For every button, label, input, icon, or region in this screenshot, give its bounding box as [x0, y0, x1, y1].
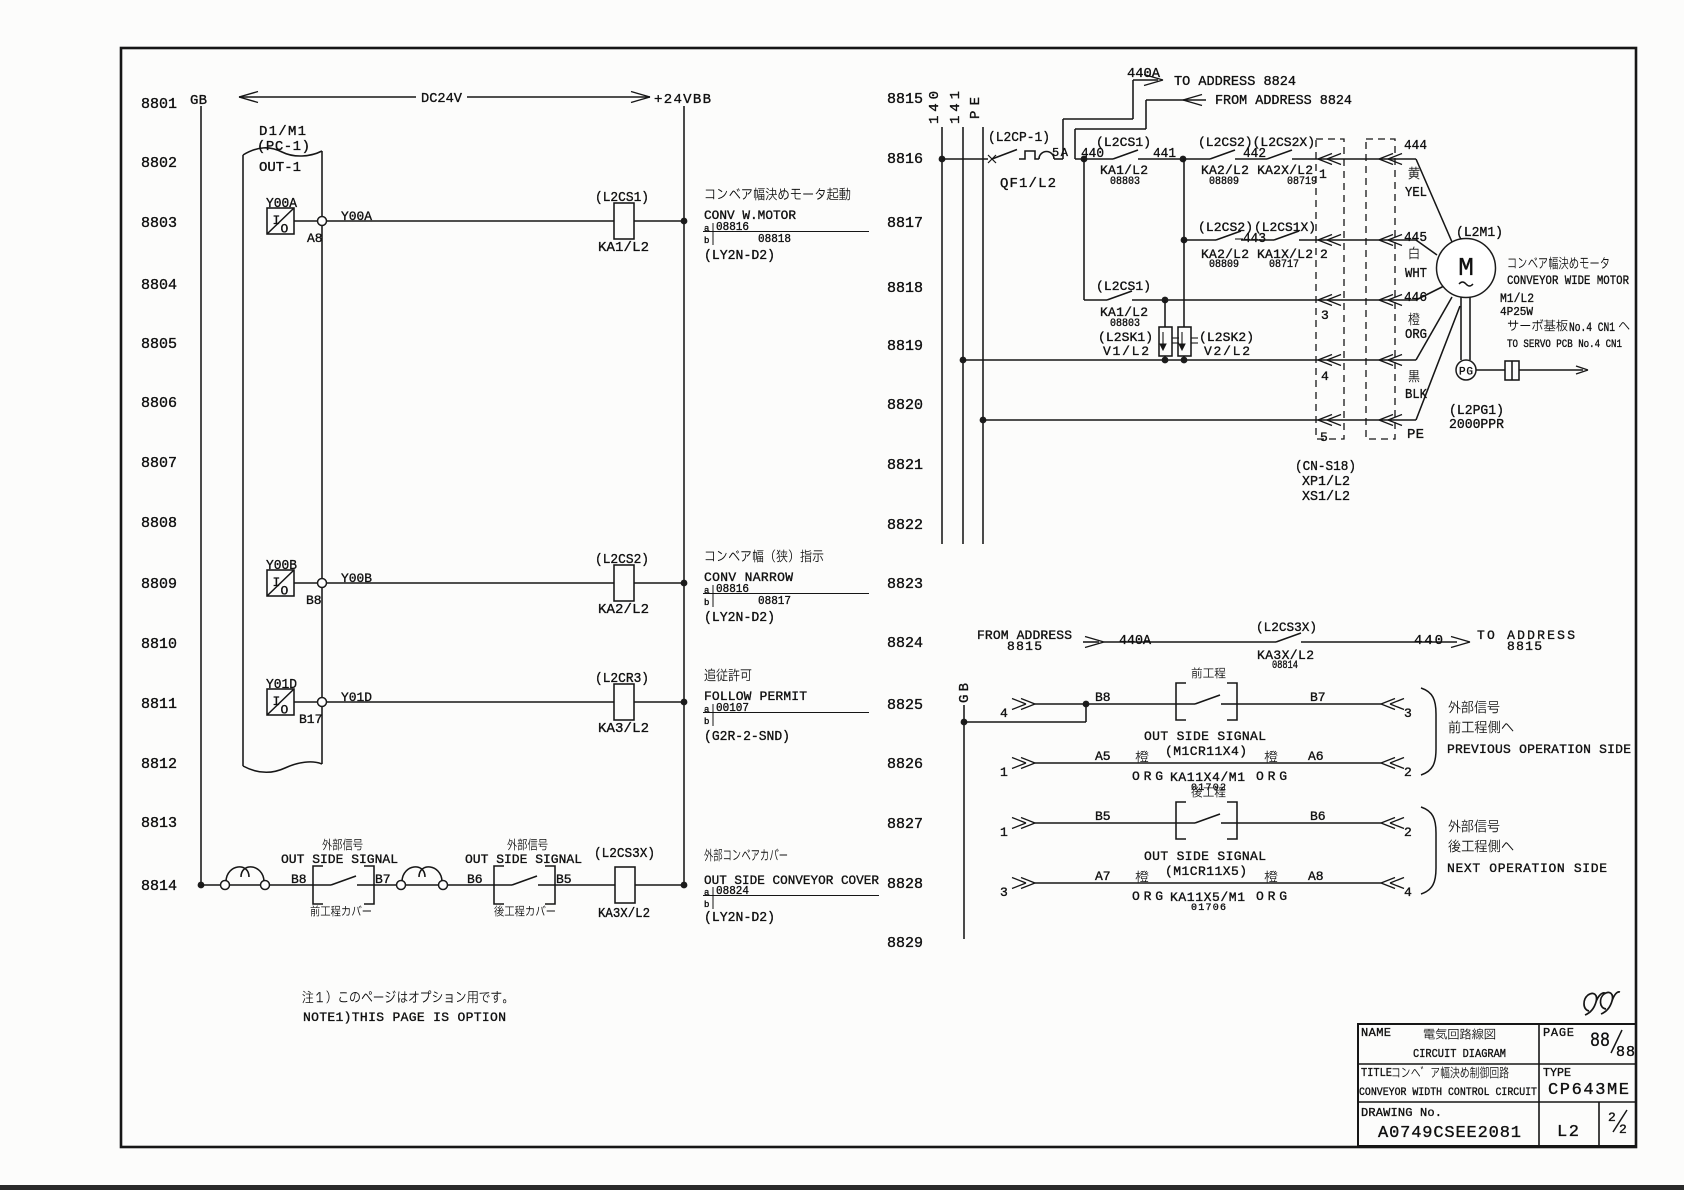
svg-text:a: a [704, 888, 710, 898]
rail PE top [968, 97, 984, 544]
cross-reference CONV W.MOTOR (LY2N-D2) [703, 188, 869, 264]
svg-text:D1/M1: D1/M1 [259, 124, 306, 140]
svg-text:8826: 8826 [887, 756, 923, 773]
cover switch B6-B5 (rear process cover) [465, 839, 582, 917]
svg-text:FROM ADDRESS 8824: FROM ADDRESS 8824 [1215, 93, 1352, 109]
note next operation side [1447, 820, 1607, 877]
svg-text:8816: 8816 [887, 151, 923, 168]
svg-text:Y00A: Y00A [341, 209, 372, 224]
circuit breaker QF1/L2 (L2CP-1) 5A [988, 130, 1069, 192]
svg-text:A0749CSEE2081: A0749CSEE2081 [1378, 1124, 1521, 1143]
wire node 441 drop [1183, 159, 1185, 240]
wire node 440 drop [1084, 159, 1107, 300]
svg-text:DRAWING No.: DRAWING No. [1361, 1106, 1442, 1120]
svg-text:XS1/L2: XS1/L2 [1302, 489, 1350, 505]
svg-text:OUT SIDE SIGNAL: OUT SIDE SIGNAL [281, 852, 398, 867]
svg-text:440: 440 [1414, 633, 1443, 649]
svg-text:(PC-1): (PC-1) [257, 139, 310, 155]
left rail GB [190, 93, 207, 885]
svg-text:O: O [281, 222, 289, 237]
contact KA2/L2 row 8817 (L2CS2) [1184, 220, 1253, 271]
svg-text:8828: 8828 [887, 876, 923, 893]
svg-text:(L2CS3X): (L2CS3X) [594, 846, 655, 862]
svg-text:444: 444 [1404, 138, 1427, 154]
wire 440 to address 8815 [1301, 628, 1575, 654]
svg-text:OUT SIDE SIGNAL: OUT SIDE SIGNAL [1144, 849, 1266, 864]
svg-text:2000PPR: 2000PPR [1449, 417, 1505, 433]
svg-text:(L2CS1): (L2CS1) [1096, 279, 1151, 294]
svg-text:4: 4 [1404, 885, 1412, 900]
junction rail 140 row 8816 [939, 156, 946, 163]
svg-text:B8: B8 [1095, 690, 1111, 705]
wire Y00A row 8803 [327, 209, 615, 224]
label 443 [1235, 231, 1266, 247]
svg-text:8825: 8825 [887, 697, 923, 714]
svg-text:3: 3 [1000, 885, 1008, 900]
svg-text:NEXT OPERATION SIDE: NEXT OPERATION SIDE [1447, 861, 1607, 876]
svg-text:b: b [704, 598, 709, 608]
svg-text:a: a [704, 224, 710, 234]
svg-text:2: 2 [1619, 1122, 1627, 1137]
relay coil KA3/L2 (L2CR3) [595, 671, 649, 737]
wire PE to motor [1407, 306, 1460, 443]
svg-text:8818: 8818 [887, 280, 923, 297]
svg-text:8822: 8822 [887, 517, 923, 534]
process switch B5-B6 (rear process) [1176, 786, 1237, 839]
svg-text:M1/L2: M1/L2 [1500, 291, 1534, 306]
svg-text:KA3/L2: KA3/L2 [598, 721, 649, 737]
wire coil KA3 to +24VBB rail [634, 701, 684, 703]
relay coil KA2/L2 (L2CS2) [595, 552, 649, 618]
wire GB to connector 1 [201, 884, 221, 886]
junction GB row 8814 [198, 882, 205, 889]
motor M1/L2 (L2M1) conveyor wide motor [1437, 225, 1630, 351]
svg-text:1: 1 [1319, 167, 1327, 182]
junction +24VBB row 8814 [681, 882, 688, 889]
svg-text:ORG: ORG [1256, 769, 1287, 784]
note previous operation side [1447, 701, 1631, 758]
brace previous operation side [1421, 688, 1436, 775]
connector XP1/L2 dashed box [1316, 139, 1344, 439]
svg-text:8803: 8803 [141, 215, 177, 232]
wire node 440 row 8816 [1075, 146, 1113, 162]
svg-text:TO ADDRESS 8824: TO ADDRESS 8824 [1174, 74, 1296, 90]
svg-text:08809: 08809 [1209, 259, 1239, 271]
svg-text:(L2SK1): (L2SK1) [1098, 330, 1153, 345]
wire A7-A8 relay KA11X5/M1 (M1CR11X5) [1000, 849, 1412, 914]
junction +24VBB row 8803 [681, 218, 688, 225]
wire Y01D row 8811 [327, 690, 615, 705]
connector pin 5 chevrons [1318, 415, 1402, 446]
svg-text:KA2/L2: KA2/L2 [598, 602, 649, 618]
surge killer V1/L2 (L2SK1) [1098, 300, 1179, 360]
svg-text:B7: B7 [1310, 690, 1326, 705]
wire 440A to address 8824 [1063, 66, 1296, 159]
svg-text:8815: 8815 [1007, 639, 1042, 654]
svg-text:(L2CS2)(L2CS2X): (L2CS2)(L2CS2X) [1198, 135, 1315, 150]
connector XS1/L2 dashed box [1366, 139, 1395, 439]
rail 141 [948, 91, 964, 544]
wire A5-A6 relay KA11X4/M1 (M1CR11X4) [1000, 729, 1412, 794]
contact KA2/L2 row 8816 (L2CS2) [1183, 150, 1235, 159]
svg-text:b: b [704, 900, 709, 910]
contact KA2X/L2 row 8816 (L2CS2X) [1198, 135, 1317, 188]
svg-text:08719: 08719 [1287, 176, 1317, 188]
svg-text:2: 2 [1320, 247, 1328, 262]
svg-text:(LY2N-D2): (LY2N-D2) [704, 248, 775, 264]
svg-text:A5: A5 [1095, 749, 1111, 764]
svg-text:141: 141 [948, 91, 964, 124]
svg-text:(L2CR3): (L2CR3) [595, 671, 649, 687]
junction row 8825 [1083, 701, 1090, 708]
svg-text:Y00A: Y00A [266, 196, 298, 212]
svg-text:140: 140 [927, 91, 943, 124]
svg-text:NOTE1)THIS PAGE IS OPTION: NOTE1)THIS PAGE IS OPTION [303, 1010, 506, 1025]
svg-text:B8: B8 [306, 593, 322, 608]
encoder PG (L2PG1) 2000PPR [1449, 298, 1505, 434]
svg-text:8812: 8812 [141, 756, 177, 773]
wire row 8818 into connector [1132, 299, 1416, 301]
row address labels 8801-8814 [141, 96, 177, 895]
svg-text:(L2CS2): (L2CS2) [595, 552, 649, 568]
bus label DC24V with arrows [239, 91, 650, 107]
junction +24VBB row 8811 [681, 699, 688, 706]
node 441 [1180, 156, 1187, 163]
svg-text:08814: 08814 [1272, 660, 1298, 672]
note CN-S18 XP1/L2 XS1/L2 [1295, 459, 1356, 505]
PLC module D1/M1 (PC-1) OUT-1 [243, 124, 322, 772]
wire row 8817 into connector [1299, 239, 1416, 241]
wire 441 [1138, 146, 1183, 162]
wire connector2 to switch B6 [406, 872, 513, 887]
svg-text:B8: B8 [291, 872, 307, 887]
svg-text:CIRCUIT DIAGRAM: CIRCUIT DIAGRAM [1413, 1047, 1506, 1061]
label 442 [1243, 146, 1266, 162]
junction row 8818 surge [1162, 297, 1169, 304]
svg-text:8806: 8806 [141, 395, 177, 412]
svg-text:08809: 08809 [1209, 176, 1239, 188]
PLC output Y00A pin A8 [266, 196, 327, 246]
svg-text:446: 446 [1404, 290, 1427, 306]
svg-text:4: 4 [1000, 706, 1008, 721]
contact KA1X/L2 row 8817 (L2CS1X) [1241, 220, 1316, 271]
svg-text:4P25W: 4P25W [1500, 305, 1534, 319]
wire BLK to motor [1405, 297, 1452, 403]
svg-text:WHT: WHT [1405, 266, 1427, 282]
svg-text:8811: 8811 [141, 696, 177, 713]
cross-reference OUT SIDE CONVEYOR COVER [703, 849, 879, 926]
svg-text:(L2M1): (L2M1) [1456, 225, 1503, 241]
svg-text:Y01D: Y01D [341, 690, 372, 705]
relay coil KA3X/L2 (L2CS3X) [594, 846, 655, 922]
svg-text:A8: A8 [1308, 869, 1324, 884]
svg-text:V2/L2: V2/L2 [1204, 344, 1250, 359]
svg-text:YEL: YEL [1405, 185, 1427, 201]
svg-text:O: O [281, 584, 289, 599]
svg-text:B6: B6 [1310, 809, 1326, 824]
svg-text:8817: 8817 [887, 215, 923, 232]
surge killer V2/L2 (L2SK2) [1178, 240, 1254, 360]
svg-text:KA3X/L2: KA3X/L2 [598, 906, 650, 922]
svg-text:445: 445 [1404, 230, 1427, 246]
svg-text:440A: 440A [1119, 633, 1152, 649]
wire coil KA2 to +24VBB rail [634, 582, 684, 584]
svg-text:PG: PG [1459, 367, 1473, 379]
svg-text:441: 441 [1153, 146, 1176, 162]
svg-text:8815: 8815 [887, 91, 923, 108]
svg-text:Y00B: Y00B [341, 571, 372, 586]
wire row 8820 PE [983, 419, 1416, 421]
junction rail 141 row 8819 [960, 357, 967, 364]
wire exit 2 row 8827 [1237, 809, 1412, 840]
svg-text:1: 1 [1000, 765, 1008, 780]
svg-text:08803: 08803 [1110, 318, 1140, 330]
brace next operation side [1421, 807, 1436, 894]
svg-text:8810: 8810 [141, 636, 177, 653]
svg-text:L2: L2 [1557, 1123, 1579, 1142]
svg-text:B6: B6 [467, 872, 483, 887]
wire row 8816 into connector [1292, 158, 1416, 160]
wire PG to servo connector [1476, 369, 1505, 371]
svg-text:A6: A6 [1308, 749, 1324, 764]
svg-text:2: 2 [1404, 825, 1412, 840]
svg-text:I: I [273, 575, 281, 590]
svg-text:8814: 8814 [141, 878, 177, 895]
svg-text:8813: 8813 [141, 815, 177, 832]
svg-text:(LY2N-D2): (LY2N-D2) [704, 910, 775, 926]
wire coil KA1 to +24VBB rail [634, 220, 684, 222]
junction +24VBB row 8809 [681, 580, 688, 587]
row address labels 8815-8829 [887, 91, 923, 952]
svg-text:8823: 8823 [887, 576, 923, 593]
svg-text:88: 88 [1616, 1044, 1635, 1061]
junction V2 row 8819 [1181, 357, 1188, 364]
junction rail PE row 8820 [980, 417, 987, 424]
wire exit 3 row 8825 [1237, 690, 1412, 721]
wire switch B5 to coil KA3X [576, 884, 615, 886]
wire Y00B row 8809 [327, 571, 615, 586]
svg-text:8801: 8801 [141, 96, 177, 113]
svg-text:PREVIOUS OPERATION SIDE: PREVIOUS OPERATION SIDE [1447, 742, 1631, 757]
svg-text:5: 5 [1320, 430, 1328, 445]
svg-text:GB: GB [190, 93, 207, 109]
contact KA1/L2 row 8818 (L2CS1) [1096, 279, 1151, 330]
contact KA1/L2 row 8816 (L2CS1) [1096, 135, 1151, 188]
cross-reference CONV NARROW (LY2N-D2) [703, 550, 869, 626]
svg-text:8815: 8815 [1507, 639, 1542, 654]
junction V1 row 8819 [1162, 357, 1169, 364]
relay coil KA1/L2 (L2CS1) [595, 190, 649, 256]
svg-text:B7: B7 [375, 872, 391, 887]
svg-text:2: 2 [1404, 765, 1412, 780]
svg-text:(L2CS1): (L2CS1) [595, 190, 649, 206]
title block frame [1358, 1024, 1636, 1146]
wire GB to row 8825 [964, 704, 1086, 722]
svg-text:a: a [704, 705, 710, 715]
wire from address 8824 [1075, 93, 1352, 159]
svg-text:No.4 CN1: No.4 CN1 [1569, 320, 1615, 335]
svg-text:(LY2N-D2): (LY2N-D2) [704, 610, 775, 626]
connector to servo PCB [1505, 361, 1519, 380]
right rail +24VBB [683, 106, 685, 885]
svg-text:Y01D: Y01D [266, 677, 297, 693]
svg-text:B5: B5 [1095, 809, 1111, 824]
svg-text:KA1/L2: KA1/L2 [598, 240, 649, 256]
connector pin 4 chevrons [1318, 355, 1402, 385]
svg-text:(L2CS1X): (L2CS1X) [1254, 220, 1316, 235]
svg-text:CP643ME: CP643ME [1548, 1081, 1629, 1100]
rail GB lower [957, 683, 973, 939]
cross-reference FOLLOW PERMIT (G2R-2-SND) [703, 668, 869, 745]
svg-text:8804: 8804 [141, 277, 177, 294]
title block texts [1359, 1026, 1635, 1143]
svg-text:PE: PE [1407, 427, 1424, 443]
junction node 441 row 8817 [1181, 237, 1188, 244]
PLC output Y00B pin B8 [266, 558, 327, 608]
svg-text:440A: 440A [1127, 66, 1161, 82]
svg-text:OUT SIDE SIGNAL: OUT SIDE SIGNAL [1144, 729, 1266, 744]
svg-text:QF1/L2: QF1/L2 [1000, 176, 1056, 192]
connector pair 2 row 8814 [397, 867, 448, 890]
connector pin 1 chevrons [1318, 154, 1402, 183]
svg-text:I: I [273, 213, 281, 228]
svg-text:8809: 8809 [141, 576, 177, 593]
wire coil KA3X to +24VBB rail [635, 884, 684, 886]
svg-text:(M1CR11X5): (M1CR11X5) [1165, 864, 1247, 879]
wire 444 YEL to motor [1404, 138, 1452, 242]
rail 140 [927, 91, 943, 544]
handwritten page mark [1584, 992, 1620, 1015]
svg-text:8802: 8802 [141, 155, 177, 172]
svg-text:08803: 08803 [1110, 176, 1140, 188]
svg-text:A8: A8 [307, 231, 323, 246]
note page option [302, 990, 506, 1025]
svg-text:b: b [704, 717, 709, 727]
connector pair 1 row 8814 [221, 867, 270, 890]
svg-text:08818: 08818 [758, 232, 791, 246]
svg-text:(M1CR11X4): (M1CR11X4) [1165, 744, 1247, 759]
svg-text:3: 3 [1321, 308, 1329, 323]
svg-text:(L2CS1): (L2CS1) [1096, 135, 1151, 150]
svg-text:8829: 8829 [887, 935, 923, 952]
PLC output Y01D pin B17 [266, 677, 327, 727]
svg-text:(L2SK2): (L2SK2) [1199, 330, 1254, 345]
svg-text:NAME: NAME [1361, 1026, 1391, 1040]
wire 446 ORG to motor [1404, 286, 1444, 343]
svg-text:(L2CS3X): (L2CS3X) [1256, 620, 1317, 635]
svg-text:8821: 8821 [887, 457, 923, 474]
svg-text:8824: 8824 [887, 635, 923, 652]
svg-text:ORG: ORG [1132, 889, 1163, 904]
svg-text:5A: 5A [1052, 146, 1069, 160]
connector pin 2 chevrons [1318, 235, 1402, 263]
svg-text:CONVEYOR WIDE MOTOR: CONVEYOR WIDE MOTOR [1507, 273, 1629, 288]
svg-text:3: 3 [1404, 706, 1412, 721]
connector pin 3 chevrons [1318, 295, 1402, 324]
svg-text:A7: A7 [1095, 869, 1111, 884]
svg-text:8819: 8819 [887, 338, 923, 355]
svg-text:8808: 8808 [141, 515, 177, 532]
svg-text:4: 4 [1321, 369, 1329, 384]
svg-text:(CN-S18): (CN-S18) [1295, 459, 1356, 475]
svg-text:OUT-1: OUT-1 [259, 160, 301, 176]
svg-text:PAGE: PAGE [1543, 1026, 1574, 1040]
svg-text:b: b [704, 236, 709, 246]
svg-text:8807: 8807 [141, 455, 177, 472]
svg-text:O: O [281, 703, 289, 718]
svg-text:B17: B17 [299, 712, 322, 727]
svg-text:TITLE: TITLE [1361, 1066, 1392, 1080]
wire row 8819 [963, 359, 1416, 361]
node 440 [1081, 156, 1088, 163]
svg-text:08817: 08817 [758, 594, 791, 608]
svg-text:ORG: ORG [1256, 889, 1287, 904]
svg-text:TYPE: TYPE [1543, 1066, 1571, 1080]
svg-text:B5: B5 [556, 872, 572, 887]
svg-text:(L2CP-1): (L2CP-1) [988, 130, 1050, 146]
junction GB row 8825 [961, 719, 968, 726]
svg-text:M: M [1458, 253, 1474, 283]
svg-text:08717: 08717 [1269, 259, 1299, 271]
svg-text:DC24V: DC24V [421, 91, 463, 107]
svg-text:XP1/L2: XP1/L2 [1302, 474, 1350, 490]
svg-text:ORG: ORG [1405, 327, 1427, 343]
cover switch B8-B7 (front process cover) [281, 839, 398, 917]
wire 140 to breaker [942, 158, 988, 160]
svg-text:ORG: ORG [1132, 769, 1163, 784]
svg-text:2: 2 [1608, 1110, 1616, 1125]
svg-text:8805: 8805 [141, 336, 177, 353]
svg-text:I: I [273, 694, 281, 709]
wire connector1 to switch B8 [230, 872, 332, 887]
svg-text:(G2R-2-SND): (G2R-2-SND) [704, 729, 790, 745]
wire entry 4 row 8825 [1000, 690, 1195, 721]
net +24VBB [654, 92, 711, 108]
svg-text:OUT SIDE SIGNAL: OUT SIDE SIGNAL [465, 852, 582, 867]
wire from address 8815 [977, 628, 1276, 654]
svg-text:a: a [704, 586, 710, 596]
wire entry 1 row 8827 [1000, 809, 1195, 840]
svg-text:CONVEYOR WIDTH CONTROL CIRCUIT: CONVEYOR WIDTH CONTROL CIRCUIT [1359, 1087, 1537, 1099]
wire servo arrow [1519, 366, 1588, 374]
svg-text:8827: 8827 [887, 816, 923, 833]
svg-text:V1/L2: V1/L2 [1103, 344, 1149, 359]
contact KA3X/L2 (L2CS3X) row 8824 [1256, 620, 1317, 672]
process switch B8-B7 (front process) [1176, 667, 1237, 720]
svg-text:Y00B: Y00B [266, 558, 297, 574]
wire 445 WHT to motor [1404, 230, 1437, 282]
svg-text:TO SERVO PCB No.4 CN1: TO SERVO PCB No.4 CN1 [1507, 339, 1622, 351]
svg-text:1: 1 [1000, 825, 1008, 840]
svg-text:8820: 8820 [887, 397, 923, 414]
svg-text:88: 88 [1590, 1030, 1610, 1053]
svg-text:01706: 01706 [1191, 903, 1226, 914]
